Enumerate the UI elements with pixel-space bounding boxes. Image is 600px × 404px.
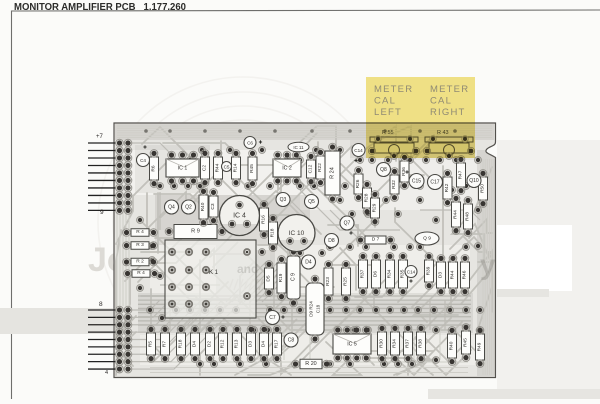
svg-text:IC 2: IC 2: [282, 166, 292, 172]
svg-text:4: 4: [105, 370, 108, 376]
svg-text:R34: R34: [387, 269, 393, 278]
svg-text:D4: D4: [305, 260, 312, 266]
svg-text:IC 11: IC 11: [293, 145, 304, 150]
svg-text:D4: D4: [192, 341, 198, 347]
svg-text:R30: R30: [379, 339, 385, 348]
svg-text:Q3: Q3: [280, 197, 287, 203]
svg-text:Q2: Q2: [185, 205, 192, 211]
svg-text:Q5: Q5: [308, 199, 315, 205]
svg-text:R37: R37: [405, 339, 411, 348]
svg-text:C2: C2: [202, 165, 208, 171]
svg-text:R46: R46: [462, 270, 468, 279]
svg-text:C8: C8: [288, 338, 295, 344]
svg-text:R37: R37: [360, 269, 366, 278]
svg-text:C 9: C 9: [291, 273, 297, 281]
svg-text:R45: R45: [249, 164, 255, 173]
svg-text:R44: R44: [215, 163, 221, 172]
svg-text:R28: R28: [364, 193, 370, 202]
svg-text:y: y: [480, 249, 496, 280]
svg-text:D4: D4: [261, 341, 267, 347]
svg-text:R7: R7: [162, 341, 168, 347]
svg-text:D 7: D 7: [372, 237, 380, 243]
svg-text:D8: D8: [328, 238, 335, 244]
svg-text:R47: R47: [458, 170, 464, 179]
svg-text:R44: R44: [453, 210, 459, 219]
svg-text:9: 9: [100, 209, 104, 216]
svg-text:D3: D3: [248, 341, 254, 347]
svg-text:R48: R48: [465, 212, 471, 221]
svg-text:IC 5: IC 5: [347, 342, 357, 348]
svg-text:C5: C5: [224, 165, 230, 170]
svg-text:METER: METER: [430, 84, 469, 95]
svg-text:R 4: R 4: [136, 229, 144, 235]
svg-text:R 2: R 2: [136, 259, 144, 265]
svg-text:R14: R14: [233, 163, 239, 172]
svg-text:CAL: CAL: [374, 96, 396, 107]
svg-text:IC 4: IC 4: [233, 213, 246, 220]
svg-text:C7: C7: [269, 315, 276, 321]
svg-text:C17: C17: [430, 180, 439, 186]
svg-text:R38: R38: [418, 339, 424, 348]
svg-text:R39: R39: [426, 266, 432, 275]
svg-text:Q7: Q7: [344, 221, 351, 227]
svg-text:C14: C14: [407, 270, 416, 275]
svg-text:C18: C18: [316, 304, 321, 313]
svg-text:R49: R49: [477, 342, 483, 351]
svg-text:IC 1: IC 1: [178, 166, 188, 172]
svg-text:IC 10: IC 10: [289, 230, 305, 237]
svg-text:R16: R16: [261, 215, 267, 224]
svg-text:R19: R19: [278, 273, 284, 282]
svg-text:R 9: R 9: [191, 229, 200, 235]
svg-text:R22: R22: [317, 163, 323, 172]
svg-text:Q4: Q4: [168, 205, 175, 211]
svg-text:C12: C12: [308, 164, 314, 173]
svg-text:R 3: R 3: [136, 242, 144, 248]
svg-text:R40: R40: [200, 202, 206, 211]
svg-text:CAL: CAL: [430, 96, 452, 107]
svg-text:R23: R23: [325, 277, 331, 286]
svg-text:R 24: R 24: [330, 167, 336, 179]
svg-text:METER: METER: [374, 84, 413, 95]
svg-text:R18: R18: [270, 228, 276, 237]
svg-text:R26: R26: [355, 179, 361, 188]
svg-text:R36: R36: [401, 167, 407, 176]
svg-text:LEFT: LEFT: [374, 107, 402, 118]
svg-text:Q8: Q8: [380, 167, 387, 173]
svg-text:R42: R42: [444, 183, 450, 192]
svg-text:R25: R25: [343, 277, 349, 286]
svg-text:C14: C14: [354, 148, 363, 153]
svg-text:R44: R44: [450, 270, 456, 279]
svg-text:R5: R5: [148, 341, 154, 347]
svg-text:R 4: R 4: [137, 270, 145, 276]
svg-text:R34: R34: [392, 339, 398, 348]
svg-text:R12: R12: [220, 339, 226, 348]
svg-text:R50: R50: [480, 184, 486, 193]
svg-text:C6: C6: [247, 141, 253, 146]
svg-text:R40: R40: [449, 341, 455, 350]
svg-text:R 20: R 20: [305, 361, 316, 367]
svg-text:Q10: Q10: [469, 178, 479, 184]
svg-text:and: and: [237, 262, 258, 276]
svg-text:D2: D2: [207, 341, 213, 347]
svg-text:C3: C3: [210, 203, 216, 209]
svg-text:R6: R6: [151, 165, 157, 171]
svg-text:R29: R29: [372, 203, 378, 212]
svg-text:+7: +7: [96, 134, 104, 140]
svg-text:D9 R24: D9 R24: [309, 301, 314, 317]
svg-text:D6: D6: [373, 271, 379, 277]
svg-text:C4: C4: [140, 158, 146, 163]
svg-text:RIGHT: RIGHT: [430, 107, 466, 118]
svg-text:R18: R18: [178, 339, 184, 348]
svg-text:R13: R13: [234, 339, 240, 348]
svg-text:K 1: K 1: [209, 270, 219, 276]
svg-text:D5: D5: [266, 275, 272, 281]
svg-text:R32: R32: [391, 180, 397, 189]
svg-text:R17: R17: [274, 339, 280, 348]
svg-text:C15: C15: [412, 179, 421, 185]
svg-text:8: 8: [99, 301, 103, 308]
svg-text:R45: R45: [463, 338, 469, 347]
svg-text:Q 9: Q 9: [423, 236, 431, 242]
svg-text:D3: D3: [438, 272, 444, 278]
